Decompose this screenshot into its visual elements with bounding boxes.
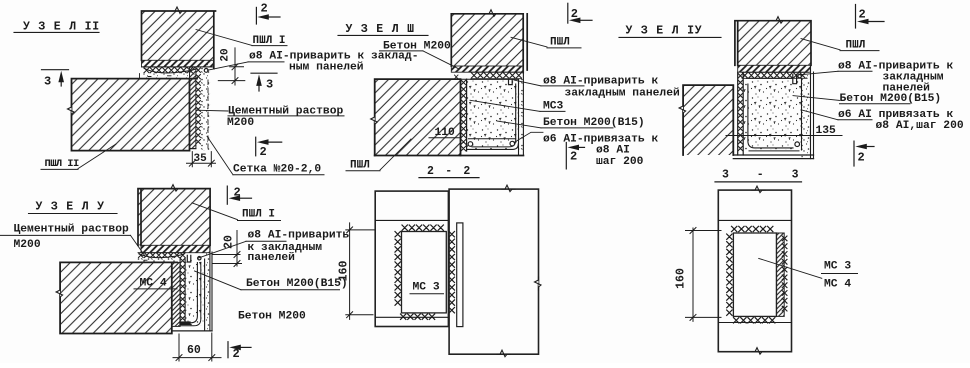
section title 2 - 2 [419,165,479,178]
svg-text:Сетка №20-2,0: Сетка №20-2,0 [233,163,321,175]
label МС 4 with leader (узел V) [134,278,177,290]
dimension 20 (узел II) [218,48,245,85]
label ПШЛ with leader (узел IV) [801,39,879,52]
right wall with stipple (узел V) [172,245,212,331]
mesh row (узел V) [138,253,185,258]
cement vertical bed stipple (узел II) [190,64,211,151]
break mark top panel III [486,10,499,16]
rebar frame (узел V) [179,263,201,326]
section mark 2 top (узел IV) [856,5,885,29]
mesh row Сетка (узел II) [142,67,215,73]
rebar circle left (узел III) [468,142,473,147]
svg-text:У З Е Л У: У З Е Л У [36,201,105,214]
svg-text:Бетон М200(В15): Бетон М200(В15) [543,117,645,129]
panel ПШЛ slab (узел IV) [683,85,733,155]
mesh strip vertical (узел V) [180,258,185,323]
section mark 2 bottom (узел V) [228,342,251,362]
section mark 2 middle (узел II) [256,137,282,159]
svg-text:ПШЛ I: ПШЛ I [253,35,286,47]
mesh row (узел IV) [742,72,807,78]
svg-text:3 - 3: 3 - 3 [722,169,809,182]
corner pocket with x mark (узел III) [451,75,471,79]
label МС 3 (section 2-2) [410,282,444,294]
svg-text:60: 60 [187,344,201,357]
title УЗЕЛ II [14,21,100,34]
break mark slab left edge (узел III) [371,114,378,127]
label Бетон М200 (узел III) [380,41,459,69]
svg-text:ПШЛ: ПШЛ [550,36,570,48]
right wall with stipple (узел III) [375,73,524,156]
mortar strip hatched (узел V) [141,245,210,252]
embedded plate black bar (узел V) [179,321,190,325]
mesh strip vertical (узел IV) [738,72,744,155]
svg-text:2: 2 [571,7,578,21]
section mark 2 top (узел III) [568,3,592,23]
break mark top panel II [172,7,185,14]
mortar strip hatched (узел II) [142,60,214,67]
label d6 AI привязать (узел IV) [802,109,964,132]
rebar hook top (узел III) [509,79,513,84]
svg-text:МС 3: МС 3 [824,261,851,273]
svg-text:2: 2 [260,145,267,159]
dimension 160 (section 3-3) [675,228,722,322]
label d6 AI привязать (узел III) [514,132,658,168]
svg-text:20: 20 [220,48,232,61]
cavity concrete (узел V) [185,259,204,325]
rebar frame (узел IV) [748,84,799,151]
section mark 2 bottom (узел III) [566,143,584,169]
weld circle (узел IV) [798,74,801,77]
break mark slab left edge (узел IV) [679,103,686,116]
label Бетон М200(В15) (узел III) [497,117,645,129]
title УЗЕЛ IУ [619,25,721,38]
svg-text:160: 160 [675,268,688,289]
break mark slab left edge (узел II) [68,104,75,117]
svg-text:ным панелей: ным панелей [289,62,364,74]
rebar hook top (узел V) [187,255,191,262]
svg-text:35: 35 [194,153,208,165]
rebar circle right (узел III) [510,141,515,146]
label Бетон М200(В15) (узел IV) [793,93,941,105]
weld circle (узел V) [198,257,201,260]
dimension 110 (узел III) [429,127,461,139]
break mark slab left edge (узел V) [56,287,63,300]
right wall with stipple (узел IV) [733,65,813,158]
panel ПШЛ slab (узел III) [375,79,461,155]
break marks panel (section 3-3) [752,186,765,354]
rebar frame МС3 (узел III) [467,84,518,149]
svg-text:У З Е Л II: У З Е Л II [23,21,100,34]
svg-text:МС 4: МС 4 [140,278,167,290]
label ПШЛ with leader (узел III bottom) [346,139,411,171]
svg-text:Бетон М200: Бетон М200 [238,310,306,322]
svg-text:М200: М200 [227,117,254,129]
svg-text:ПШЛ II: ПШЛ II [45,158,80,170]
svg-text:шаг 200: шаг 200 [596,156,644,168]
mortar strip hatched (узел III) [451,66,523,72]
svg-text:ПШЛ: ПШЛ [846,39,866,51]
svg-text:закладным панелей: закладным панелей [565,87,680,99]
cement bed strip (узел V) [137,258,177,263]
svg-text:3: 3 [266,78,273,92]
section title 3 - 3 [715,169,809,182]
dimension 35 (узел II) [187,152,216,167]
svg-text:2: 2 [570,150,577,164]
rebar hook top (узел IV) [793,74,797,83]
section mark 2 bottom (узел IV) [854,141,874,166]
cavity concrete (узел IV) [743,78,801,150]
left panel (section 2-2) [375,191,448,326]
svg-text:135: 135 [816,125,837,137]
section mark 2 top (узел II) [256,2,280,25]
dimension 160 (section 2-2) [338,223,375,320]
panel ПШЛ II slab (узел II) [72,79,198,151]
label Цементный раствор М200 (узел II) [196,105,344,129]
mesh chain column (узел II) [196,68,200,144]
svg-text:ø8 АI-приварить: ø8 АI-приварить [248,229,350,241]
section mark 2 top (узел V) [227,185,251,204]
МС3/МС4 plate box with welds (section 3-3) [727,226,787,323]
svg-text:2: 2 [233,347,240,361]
label ПШЛ with leader (узел III top) [511,36,581,48]
svg-text:панелей: панелей [248,252,296,264]
svg-text:2 - 2: 2 - 2 [427,165,473,178]
mesh row (узел III) [471,72,522,79]
section mark 3 left (узел II) [42,70,69,89]
svg-text:ПШЛ: ПШЛ [350,159,370,171]
title УЗЕЛ У [29,201,118,214]
label d8 AI priварить к закладным (узел III) [514,75,680,99]
break mark top panel IV [773,17,786,24]
mesh strip vertical (узел III) [461,79,467,151]
svg-text:2: 2 [858,151,865,165]
svg-text:Бетон М200(В15): Бетон М200(В15) [246,278,348,290]
dimension 60 (узел V) [173,333,221,361]
line 135 with tick (узел IV) [726,125,842,140]
title УЗЕЛ Ш [338,23,428,36]
break marks right panel (section 2-2) [497,185,541,357]
svg-text:МС 4: МС 4 [824,278,851,290]
panel ПШЛ II slab (узел V) [60,262,177,333]
svg-text:2: 2 [261,2,268,16]
svg-text:Цементный раствор: Цементный раствор [14,224,129,236]
svg-text:ø8 АI,шаг 200: ø8 АI,шаг 200 [876,120,964,132]
weld dot circle (узел II) [204,69,208,73]
label ПШЛ I with leader (узел II top) [196,30,287,47]
cavity concrete МС3 (узел III) [467,79,519,149]
label Бетон М200(В15) (узел V) [195,271,348,290]
channel МС4 hatched strip (узел V) [172,262,180,326]
МС3 plate edge view (section 2-2) [457,223,463,327]
right panel (section 2-2) [449,189,538,354]
panel ПШЛ top (узел III) [451,14,527,73]
svg-text:М200: М200 [14,239,41,251]
svg-text:2: 2 [859,8,866,22]
label ПШЛ I with leader (узел V) [192,203,281,221]
svg-text:3: 3 [44,75,51,89]
panel (section 3-3) [718,190,791,352]
label Цементный раствор М200 (узел V) [0,224,145,256]
svg-text:ø8 АI: ø8 АI [596,145,630,157]
label Сетка №20-2,0 (узел II) [207,136,324,175]
dimension 20 (узел V) [213,231,242,267]
label d8 AI priварить (узел V) [198,229,349,263]
svg-text:У З Е Л Ш: У З Е Л Ш [346,23,415,36]
section mark 3 right (узел II) [251,73,277,91]
label d8 AI priварить (узел IV) [800,61,953,95]
channel web hatched strip (узел II) [190,67,196,149]
svg-text:У З Е Л IУ: У З Е Л IУ [626,25,703,38]
panel ПШЛ top (узел IV) [735,21,811,66]
label ПШЛ II with leader (узел II bottom) [41,144,116,170]
break mark top panel V [168,185,181,192]
label d8 AI priварить (узел II) [208,50,419,73]
mortar strip hatched (узел IV) [738,65,811,72]
labels МС 3 / МС 4 with leader (section 3-3) [759,258,858,290]
cement bed strip (узел II) [140,74,199,79]
panel ПШЛ I top (узел V) [138,189,210,246]
svg-text:ПШЛ I: ПШЛ I [242,208,275,220]
svg-text:160: 160 [338,261,351,282]
svg-text:МС3: МС3 [543,101,564,113]
panel ПШЛ I top (узел II) [142,11,216,69]
svg-text:2: 2 [234,185,241,199]
rebar circle bottom right (узел IV) [795,142,800,147]
МС3 plate box with welds (section 2-2) [395,225,455,319]
svg-text:МС 3: МС 3 [413,282,440,294]
svg-text:20: 20 [223,235,236,249]
label МС3 with leader (узел III) [470,100,565,112]
